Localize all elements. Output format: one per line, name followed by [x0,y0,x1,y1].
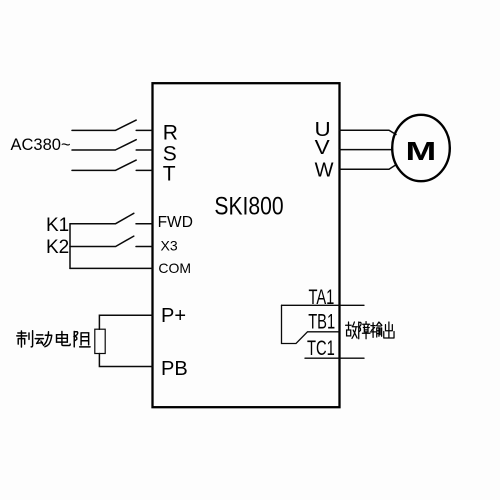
svg-text:SKI800: SKI800 [214,192,283,220]
svg-text:K2: K2 [46,237,69,258]
svg-text:FWD: FWD [158,214,193,231]
svg-text:X3: X3 [161,238,178,254]
svg-text:K1: K1 [46,215,69,236]
svg-text:AC380~: AC380~ [11,136,71,154]
svg-text:V: V [315,136,331,158]
svg-text:COM: COM [158,260,191,276]
svg-text:T: T [163,162,176,185]
svg-text:P+: P+ [161,305,186,327]
svg-text:W: W [315,159,334,181]
svg-text:TC1: TC1 [307,337,335,360]
svg-text:TA1: TA1 [309,286,335,309]
svg-text:R: R [163,122,178,145]
svg-text:TB1: TB1 [308,310,335,333]
svg-text:M: M [406,137,437,166]
svg-text:PB: PB [161,358,188,380]
